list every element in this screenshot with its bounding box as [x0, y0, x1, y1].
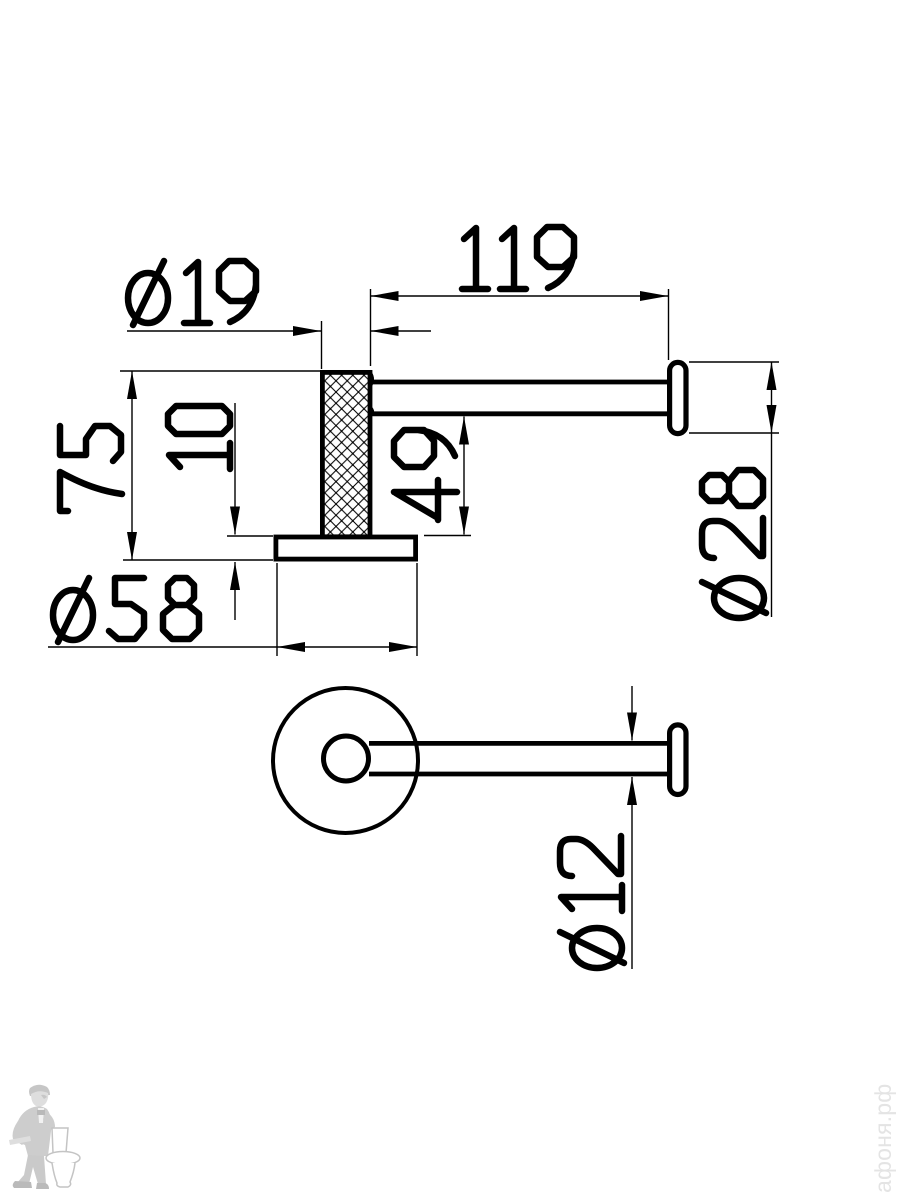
- dim O58: extension lines: [277, 563, 417, 656]
- hair: [29, 1085, 50, 1096]
- text O58: [53, 578, 199, 642]
- knurled post P1: [322, 372, 370, 536]
- hub circle: [324, 736, 369, 781]
- dim O28: extension lines: [689, 362, 779, 433]
- dim 75: dimension line: [131, 371, 133, 560]
- text 49 (rotated): [394, 430, 457, 520]
- arrows dim 119: [371, 291, 399, 301]
- base plate (flange), side view: [276, 537, 416, 559]
- dim 119: dimension line: [371, 295, 669, 297]
- dim 119: extension lines: [371, 289, 669, 366]
- legs: [17, 1155, 46, 1184]
- toilet tank: [52, 1128, 68, 1153]
- head/face: [31, 1091, 48, 1106]
- dim O58: dimension line: [48, 646, 417, 648]
- dim O28: dimension line: [771, 362, 773, 617]
- end cap, front view: [670, 725, 686, 795]
- torso jacket: [14, 1106, 51, 1156]
- rod, front view: [369, 743, 667, 774]
- arrows dim O19: [293, 326, 321, 336]
- arrows dim O58: [277, 642, 305, 652]
- toilet bowl rim: [46, 1152, 80, 1165]
- dim O19: leader lines: [127, 330, 431, 332]
- text O28 (rotated): [702, 470, 766, 618]
- shoes: [13, 1181, 32, 1188]
- dim 49: extension line: [424, 535, 471, 537]
- text 119: [462, 227, 574, 289]
- svg-text:афоня.рф: афоня.рф: [870, 1084, 896, 1193]
- rod fillet at post junction: [371, 373, 373, 416]
- right arm to tank: [43, 1112, 55, 1131]
- arrows dim 75: [127, 371, 137, 399]
- rod (bar), side view: top + bottom outline: [371, 382, 667, 414]
- watermark plumber figure: [9, 1085, 80, 1189]
- dim 10: extension line: [227, 535, 273, 537]
- dim O12: dimension lines: [631, 686, 633, 969]
- arrows dim 49: [459, 417, 469, 445]
- arrows dim 10: [230, 507, 240, 535]
- arrows dim O12: [627, 713, 637, 741]
- arrows dim O28: [767, 362, 777, 390]
- text 10 (rotated): [168, 406, 230, 469]
- dim 75: extension lines: [120, 371, 320, 560]
- toilet pedestal: [52, 1163, 75, 1187]
- shirt + bow tie: [38, 1108, 44, 1123]
- dim O19: extension line: [321, 321, 323, 369]
- flange circle: [273, 688, 418, 833]
- dim 49: dimension line: [463, 417, 465, 535]
- dim 10: dimension lines: [234, 403, 236, 620]
- end cap, side view (stadium): [670, 362, 686, 433]
- left arm with tool: [13, 1121, 29, 1145]
- text O19: [128, 261, 256, 325]
- text 75 (rotated): [60, 426, 122, 511]
- text O12 (rotated): [560, 836, 624, 968]
